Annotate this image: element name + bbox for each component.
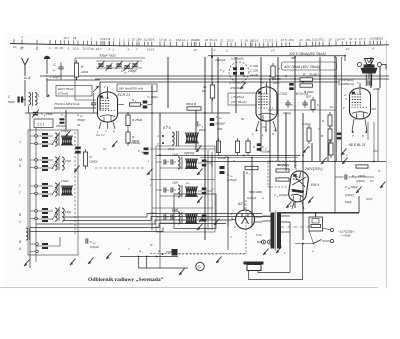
junction mains (302, 243, 304, 245)
capacitor screen (75, 147, 81, 154)
svg-text:150pF: 150pF (61, 179, 69, 183)
wire: bottom loops staircase band (30, 214, 271, 232)
ground at shield (240, 83, 246, 90)
svg-text:50: 50 (241, 117, 245, 121)
capacitor row 5 (42, 243, 48, 249)
wire: pickup drops (139, 257, 189, 269)
box: V2 data (228, 93, 261, 105)
svg-text:15: 15 (63, 36, 67, 40)
svg-text:(1MΩ): (1MΩ) (90, 160, 98, 164)
svg-text:1500pF: 1500pF (56, 124, 66, 128)
svg-text:15: 15 (73, 36, 77, 40)
IF coil bank frame (156, 146, 215, 232)
svg-text:10: 10 (131, 38, 135, 42)
IF coil if1b (185, 159, 198, 169)
svg-text:C 100: C 100 (250, 64, 258, 68)
svg-text:26: 26 (59, 46, 64, 50)
svg-text:(77mA): (77mA) (58, 92, 68, 96)
svg-text:15pF: 15pF (65, 159, 71, 163)
svg-text:2000pF: 2000pF (214, 58, 227, 62)
resistor Ra 30MΩ (300, 78, 313, 81)
wire: switch line (120, 256, 178, 258)
svg-text:P2: P2 (370, 179, 374, 183)
wire: right v3 (367, 122, 369, 140)
svg-text:(1000pF): (1000pF) (231, 57, 244, 61)
IF cap pair if1a (164, 159, 166, 164)
coil L1 primary (29, 93, 31, 106)
wire (28, 106, 30, 113)
capacitor row row1 b (42, 141, 48, 147)
svg-text:56V 4mA(70V mA): 56V 4mA(70V mA) (119, 87, 143, 91)
dial lamp (358, 59, 387, 87)
box: tube data (ECH 75mA 77mA) (56, 86, 92, 97)
svg-text:30pF: 30pF (366, 197, 373, 201)
resistor R 100kΩ (271, 63, 275, 80)
svg-text:15pF: 15pF (46, 112, 53, 116)
svg-text:M: M (19, 158, 22, 162)
svg-text:3,: 3, (67, 46, 70, 50)
switch contacts row row4 (35, 210, 38, 220)
switch contacts row row3 (35, 185, 38, 195)
svg-text:R: R (321, 134, 323, 138)
capacitor at lamp (368, 80, 370, 85)
wire: rail 4 (100, 81, 340, 83)
wire: mid rail b (200, 157, 298, 159)
box: 42V 28mA (40V 78mA) (282, 62, 337, 70)
IF cap pair if2a (164, 187, 166, 192)
svg-text:(170 50kΩmF): (170 50kΩmF) (229, 81, 246, 85)
coil row31 (55, 183, 57, 196)
wire: osc box left (74, 58, 76, 100)
fuse (311, 224, 321, 227)
ground pickup 2 (179, 269, 185, 276)
svg-text:2,: 2, (321, 38, 325, 42)
IF row wires (156, 162, 212, 168)
wire: trimmer rail (96, 61, 142, 68)
svg-text:3: 3 (240, 38, 242, 42)
paper tint (4, 34, 388, 289)
svg-text:150pF: 150pF (61, 129, 69, 133)
antenna A (22, 58, 29, 94)
trimmer capacitor C4 15pF (32, 110, 39, 118)
arrow to V1 top (93, 86, 99, 92)
ground heater 2 (276, 247, 282, 254)
svg-text:m: m (346, 155, 348, 157)
svg-text:16: 16 (380, 37, 384, 41)
dashed box EM4 grid (268, 161, 296, 187)
capacitor Caa (60, 118, 65, 124)
svg-text:L: L (38, 94, 40, 98)
junction (138, 256, 140, 258)
coil row32 (61, 186, 73, 195)
trimmer capacitor T2 (106, 63, 113, 71)
junction dots (151, 55, 346, 163)
resistor 58kΩ anode (187, 107, 201, 110)
wire: heater rail left (54, 107, 96, 109)
svg-text:1: 1 (90, 37, 92, 41)
svg-text:5,: 5, (271, 38, 274, 42)
tube V4 EM4 (tilted) (288, 170, 310, 203)
resistor Rm2 (235, 138, 239, 156)
svg-text:50K(10R): 50K(10R) (249, 190, 262, 194)
ground heater 1 (263, 249, 269, 256)
trimmer capacitor T3 (116, 61, 123, 69)
IF coil if3b (185, 214, 198, 224)
svg-text:18,: 18, (90, 47, 94, 51)
IF cap if3 (202, 215, 207, 222)
resistor Rk1 V3 (328, 112, 332, 129)
svg-text:3 2 1: 3 2 1 (37, 123, 45, 127)
ground IF row if1 (197, 169, 203, 176)
svg-text:700pF 700/2: 700pF 700/2 (99, 54, 116, 58)
capacitor Cm2 (302, 100, 307, 108)
svg-text:1: 1 (119, 37, 121, 41)
resistor R22 58kΩ (126, 129, 130, 146)
svg-text:(140V65mA): (140V65mA) (338, 82, 354, 86)
wire (24, 94, 26, 100)
voltage selector box (309, 217, 323, 231)
trimmer arrow (52, 182, 60, 195)
row wires (30, 136, 53, 144)
svg-text:R 25kΩ: R 25kΩ (132, 118, 143, 122)
capacitor in shield 1 (233, 67, 237, 75)
resistor R 10kΩ (74, 60, 78, 80)
ground V3 cathode (341, 149, 347, 156)
contact (162, 135, 164, 137)
capacitor C 700pF (143, 101, 148, 109)
svg-text:007: 007 (306, 95, 311, 99)
IF cap pair if3a (164, 214, 166, 219)
wire (335, 176, 344, 178)
IF cap pair if1b (171, 159, 173, 164)
box: detector coil unit (174, 194, 216, 229)
resistor R2 right (356, 165, 368, 168)
capacitor C8 (91, 100, 96, 108)
svg-text:21: 21 (213, 38, 218, 42)
capacitor C24 (210, 118, 215, 126)
ground bank (24, 260, 30, 267)
svg-text:10: 10 (138, 38, 142, 42)
svg-text:2: 2 (283, 251, 286, 255)
svg-text:ECH 21: ECH 21 (118, 93, 131, 97)
wire: mid bus (151, 85, 153, 230)
resistor Rem2 (276, 178, 289, 181)
svg-text:R: R (378, 169, 380, 173)
wire: mid v1 (207, 150, 209, 230)
svg-text:200pF: 200pF (127, 69, 138, 73)
wire: V2 grid feed (211, 48, 213, 114)
wire (93, 93, 95, 100)
capacitor C24 b (144, 148, 149, 155)
svg-text:C 100: C 100 (250, 69, 258, 73)
ground right filter (380, 182, 386, 189)
svg-text:15pF: 15pF (65, 210, 71, 214)
resistor Rx (130, 103, 141, 106)
svg-text:+70 28mA: +70 28mA (231, 95, 244, 99)
svg-text:7: 7 (100, 47, 102, 51)
EM4 deflection cross (292, 175, 306, 187)
svg-text:5,: 5, (77, 47, 80, 51)
IF row wires (156, 190, 212, 196)
wire: osc box (47, 72, 100, 80)
svg-text:70V 6m AŻW 6mA: 70V 6m AŻW 6mA (54, 102, 80, 106)
svg-text:A: A (138, 249, 141, 253)
svg-text:(140V): (140V) (345, 193, 354, 197)
wire: AZ1 heater drop (227, 217, 229, 250)
svg-text:10: 10 (77, 123, 81, 127)
svg-text:3,: 3, (49, 46, 52, 50)
IF coil if2a (178, 185, 180, 197)
ground reservoir (356, 187, 362, 194)
resistor Rb (300, 84, 313, 87)
page edge right (386, 40, 388, 288)
svg-text:10: 10 (159, 38, 163, 42)
left band coil assembly frame (28, 130, 78, 255)
V1 pins (99, 122, 115, 129)
svg-text:(70V 65mA): (70V 65mA) (231, 100, 246, 104)
box 3 2 1 (34, 119, 53, 128)
trimmer arrow (52, 207, 60, 220)
svg-text:21: 21 (219, 38, 224, 42)
svg-text:ECH 75mA: ECH 75mA (58, 87, 73, 91)
wire: vertical drops (47, 57, 380, 240)
capacitor 2000pF b (289, 83, 294, 90)
ground em4 (308, 197, 314, 204)
svg-text:4: 4 (127, 48, 129, 52)
shielded trimmer group (dashed circle) (229, 62, 249, 82)
resistor Rm3 (246, 138, 250, 156)
wire: speaker leads (249, 222, 303, 280)
IF cap pair if2b (171, 187, 173, 192)
svg-text:1: 1 (108, 47, 110, 51)
switch contacts row row1 (35, 135, 38, 145)
wire: top tap bus (10, 44, 389, 48)
resistor Ra (245, 166, 258, 169)
gramophone motor G (196, 262, 204, 270)
svg-text:10: 10 (103, 147, 107, 151)
svg-text:3: 3 (364, 37, 366, 41)
switch contacts row row2 (35, 159, 38, 169)
svg-text:1302: 1302 (370, 107, 377, 111)
resistor Rc (311, 97, 315, 113)
svg-text:4: 4 (214, 48, 216, 52)
capacitor C 200pF (257, 143, 262, 151)
wire: thick border bottom (277, 212, 359, 214)
capacitor row row2 b (42, 165, 48, 171)
svg-text:0,05µF: 0,05µF (279, 193, 288, 197)
svg-text:18,: 18, (54, 46, 58, 50)
coil row22 (62, 157, 64, 170)
wire: border step (358, 196, 360, 213)
svg-text:240V~: 240V~ (357, 174, 367, 178)
ground mid3 (342, 158, 348, 165)
wire: rail 2 (40, 75, 389, 77)
capacitor Cm1 (285, 100, 290, 108)
resistor Rg V3 (307, 125, 311, 144)
svg-text:15pF: 15pF (172, 209, 179, 213)
wire (21, 99, 25, 101)
wire (349, 176, 375, 178)
svg-text:15: 15 (255, 39, 259, 43)
coil T1 b (185, 133, 199, 143)
svg-text:18,: 18, (151, 38, 155, 42)
mains switch (295, 228, 334, 244)
V3 pins (352, 119, 367, 131)
wire: mid rail a (156, 155, 300, 157)
capacitor row row1 a (42, 133, 48, 139)
svg-text:4: 4 (372, 47, 374, 51)
wire: frame right b (341, 57, 343, 161)
wire: mid v2 (211, 152, 213, 230)
svg-text:0,01µF: 0,01µF (90, 245, 99, 249)
svg-text:7: 7 (136, 48, 138, 52)
ground IF2 (199, 216, 205, 223)
svg-text:2 10pF: 2 10pF (49, 75, 61, 79)
IF cap if1 (202, 160, 207, 167)
coil row11 (55, 133, 57, 146)
svg-text:1: 1 (112, 47, 114, 51)
core (29, 228, 31, 240)
svg-text:3: 3 (355, 37, 357, 41)
bus tap numbers below (13, 45, 374, 52)
capacitor Ca 10pF (58, 64, 63, 72)
svg-text:2000: 2000 (272, 81, 280, 85)
row wires (30, 211, 53, 219)
bus tap ticks (14, 39, 381, 47)
svg-text:R: R (352, 174, 354, 178)
svg-text:2: 2 (342, 106, 345, 110)
svg-text:15A: 15A (288, 38, 294, 42)
svg-text:2,: 2, (197, 38, 201, 42)
svg-text:(246V): (246V) (356, 179, 365, 183)
IF coil if3a (178, 212, 180, 224)
junction (211, 56, 213, 58)
ground IF row if3 (197, 224, 203, 231)
resistor R2 10kΩ (210, 82, 214, 101)
svg-text:10: 10 (328, 37, 332, 41)
IF cap pair if3b (171, 214, 173, 219)
resistor Rem1 (276, 169, 289, 172)
svg-text:15pF: 15pF (172, 153, 178, 157)
svg-text:10pF: 10pF (150, 211, 157, 215)
coil row12 (61, 136, 73, 145)
svg-text:50V(50V): 50V(50V) (277, 163, 289, 167)
svg-text:2,: 2, (101, 37, 105, 41)
capacitor row row4 a (42, 208, 48, 214)
switch contacts row 5 (36, 243, 39, 253)
wires row5 (30, 237, 60, 252)
capacitor row row3 b (42, 191, 48, 197)
resistor Rk2 V3 (328, 126, 332, 143)
svg-text:2,: 2, (274, 38, 278, 42)
coil La (x=26) (26, 228, 28, 240)
svg-text:15: 15 (193, 48, 197, 52)
wire: right edge wire (377, 88, 379, 162)
wire: AVC rail (25, 112, 230, 114)
svg-text:100: 100 (373, 149, 378, 153)
capacitor C50 0,01µF (86, 238, 88, 243)
wire: box border right (334, 162, 336, 213)
capacitor C1 (dark) (18, 97, 24, 103)
core (32, 92, 34, 106)
resistor R 25kΩ (126, 112, 130, 129)
svg-text:4: 4 (21, 35, 23, 39)
IF cap if2 (202, 188, 207, 195)
svg-text:200pF: 200pF (261, 150, 270, 154)
svg-text:15pF: 15pF (172, 181, 178, 185)
svg-text:15: 15 (151, 48, 155, 52)
IF row wires (156, 217, 212, 223)
wire: right rail (203, 161, 386, 163)
svg-text:30 MΩ: 30 MΩ (309, 73, 319, 77)
pickup jack (166, 249, 178, 256)
svg-text:10pF: 10pF (168, 147, 175, 151)
svg-text:50µF: 50µF (345, 200, 352, 204)
trimmer capacitor T1 (98, 61, 105, 69)
coil row21 (55, 157, 57, 170)
svg-text:C 700p: C 700p (148, 95, 158, 99)
svg-text:15A: 15A (335, 37, 341, 41)
capacitor C18 0,05µF (220, 166, 225, 174)
svg-text:R: R (225, 155, 227, 159)
svg-text:5,: 5, (285, 38, 288, 42)
ground mid2 (321, 158, 327, 165)
screen dashed (74, 132, 76, 236)
ground bank 3 (88, 258, 94, 265)
svg-text:50pF: 50pF (8, 100, 15, 104)
coil row41 (55, 208, 57, 221)
svg-text:50µF: 50µF (351, 185, 358, 189)
svg-text:10: 10 (299, 38, 303, 42)
svg-text:G: G (198, 265, 202, 270)
power transformer TR1 (262, 211, 311, 251)
ground screen (74, 166, 80, 173)
wire: osc box top (75, 57, 145, 59)
wire: IF bank row rails (150, 149, 215, 208)
tube V3 EBL21 (350, 83, 371, 119)
svg-text:Odbiornik radiowy „Serenada”: Odbiornik radiowy „Serenada” (88, 277, 164, 283)
dashed shield enclosure (150, 200, 246, 254)
capacitor C 50µF a (345, 174, 347, 179)
svg-text:R: R (308, 145, 310, 149)
wire: bank2 bus (159, 150, 161, 268)
ground left of R (112, 141, 118, 148)
wire: right v2 (373, 122, 375, 162)
wire: frame right a (336, 57, 338, 161)
svg-text:16: 16 (163, 38, 167, 42)
box: tube data (56V 6mA 70V mA) (117, 84, 157, 92)
tube V5 AZ1 (232, 210, 262, 229)
tube V1 ECH21 (98, 87, 118, 122)
svg-text:18,: 18, (244, 39, 248, 43)
trimmer capacitor T4 (124, 63, 131, 71)
svg-text:R 7002: R 7002 (304, 90, 314, 94)
svg-text:3300pF: 3300pF (215, 122, 225, 126)
svg-text:Cw 0,1: Cw 0,1 (96, 133, 105, 137)
ground EM4 (286, 202, 292, 209)
wire: selector to switch (309, 231, 314, 244)
capacitor Cg 20pF (196, 121, 198, 126)
svg-text:5,: 5, (113, 37, 116, 41)
svg-text:15: 15 (346, 47, 350, 51)
svg-text:1: 1 (226, 48, 228, 52)
coil L1 secondary (35, 93, 37, 106)
ground pickup (106, 253, 112, 260)
coil row42 (62, 208, 64, 221)
svg-text:(450kΩmF): (450kΩmF) (230, 86, 244, 90)
ground bank 2 (70, 259, 76, 266)
svg-text:pF pF: pF pF (249, 73, 258, 77)
